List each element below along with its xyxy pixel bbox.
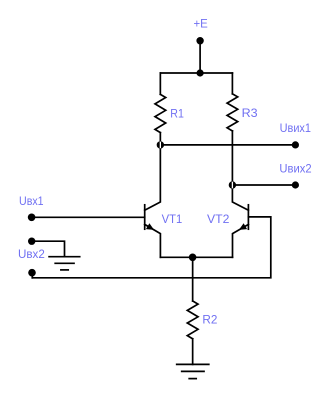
svg-text:Uвих1: Uвих1 bbox=[280, 121, 312, 135]
svg-text:Uвх1: Uвх1 bbox=[19, 194, 44, 208]
svg-text:VT2: VT2 bbox=[207, 212, 230, 226]
svg-text:+E: +E bbox=[194, 17, 208, 31]
svg-text:VT1: VT1 bbox=[162, 212, 183, 226]
svg-text:R2: R2 bbox=[202, 313, 217, 327]
svg-text:R1: R1 bbox=[170, 107, 184, 121]
svg-text:R3: R3 bbox=[242, 106, 258, 120]
svg-text:Uвих2: Uвих2 bbox=[279, 162, 312, 176]
svg-text:Uвх2: Uвх2 bbox=[18, 247, 45, 261]
